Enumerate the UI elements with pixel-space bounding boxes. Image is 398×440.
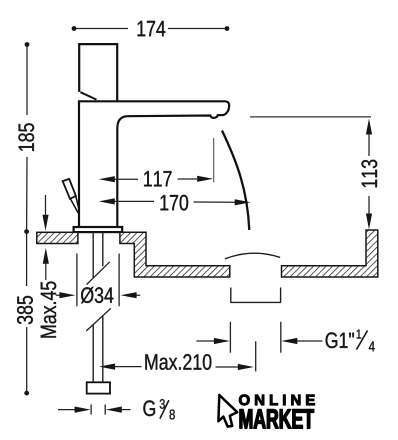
dimension G1 1/4 text <box>326 332 354 348</box>
lever knob <box>63 179 76 199</box>
dimension Ø34 right arrow <box>135 294 141 296</box>
dimension 170 line <box>113 200 237 203</box>
pipe break mark lower <box>86 308 111 331</box>
dimension 174 right dot <box>225 26 230 31</box>
drain dome arc <box>225 253 280 259</box>
faucet body and spout outline <box>79 101 229 228</box>
dimension Max.210 left arrow <box>99 364 115 370</box>
dimension G 3/8 left tick <box>90 405 92 415</box>
dimension 117 text <box>144 171 171 186</box>
supply connector <box>87 382 110 393</box>
dimension Ø34 left arrow <box>56 294 62 296</box>
dimension G 3/8 right arrow <box>120 409 131 411</box>
dimension Max.210 text <box>145 354 211 370</box>
dimension 170 left arrow <box>99 198 115 204</box>
dimension 113 down arrow <box>366 214 372 230</box>
sink bottom right section and right wall <box>282 230 378 277</box>
dimension 185 top dot <box>25 42 30 47</box>
dimension 113 text <box>362 160 378 188</box>
handle lever gap diagonal <box>80 92 96 99</box>
dimension G 3/8 right tick <box>104 405 106 415</box>
drain tailpiece bracket <box>231 288 281 303</box>
dimension 185 line <box>26 45 28 232</box>
dimension 174 left dot <box>72 26 77 31</box>
dimension G1 1/4 right arrow <box>296 340 323 342</box>
dimension Ø34 text <box>81 287 113 303</box>
pipe break mark upper <box>87 262 110 285</box>
dimension 117 left arrow <box>99 176 115 182</box>
supply pipe left line <box>92 232 94 382</box>
dimension 113 reference line <box>250 116 371 118</box>
dimension 385 text <box>17 296 33 324</box>
logo ONLINE text <box>239 395 315 406</box>
dimension G1 1/4 left arrow <box>197 340 216 342</box>
dimension G1 1/4 right tick <box>280 322 282 353</box>
dimension Max.45 upper arrow <box>45 195 47 216</box>
dimension Max.210 right arrow <box>238 364 254 370</box>
water stream curve <box>222 131 249 231</box>
dimension 170 right arrow <box>235 199 251 205</box>
dimension 385 line <box>26 232 28 394</box>
dimension 117 line <box>113 178 199 180</box>
logo MARKET text <box>240 409 314 428</box>
dimension Max.45 lower arrow <box>45 262 47 280</box>
countertop left section <box>37 232 78 243</box>
dimension 113 line <box>368 133 370 215</box>
faucet handle <box>79 44 117 101</box>
dimension 185 text <box>18 123 34 151</box>
dimension 170 text <box>161 195 189 211</box>
dimension G1 1/4 left tick <box>229 322 231 353</box>
dimension Max.210 tick <box>255 341 257 371</box>
countertop right section with step <box>120 232 230 277</box>
dimension Ø34 left tick <box>76 254 78 307</box>
dimension G 3/8 left arrow <box>58 409 77 411</box>
base plate <box>74 227 123 232</box>
supply pipe right line <box>102 232 104 382</box>
dimension 185 bottom dot <box>24 229 29 234</box>
dimension Ø34 right tick <box>118 254 120 307</box>
dimension 113 up arrow <box>366 119 372 135</box>
lever stem <box>70 196 79 213</box>
dimension 174 line <box>74 28 227 30</box>
dimension 385 bottom dot <box>24 391 29 396</box>
dimension Max.210 line <box>114 366 240 368</box>
dimension 117 extension line <box>213 138 215 182</box>
dimension 117 right arrow <box>197 176 213 182</box>
dimension G 3/8 text <box>143 400 155 416</box>
dimension 174 text <box>138 21 166 36</box>
logo cursor icon <box>218 395 237 427</box>
dimension Max.45 text <box>41 282 56 338</box>
